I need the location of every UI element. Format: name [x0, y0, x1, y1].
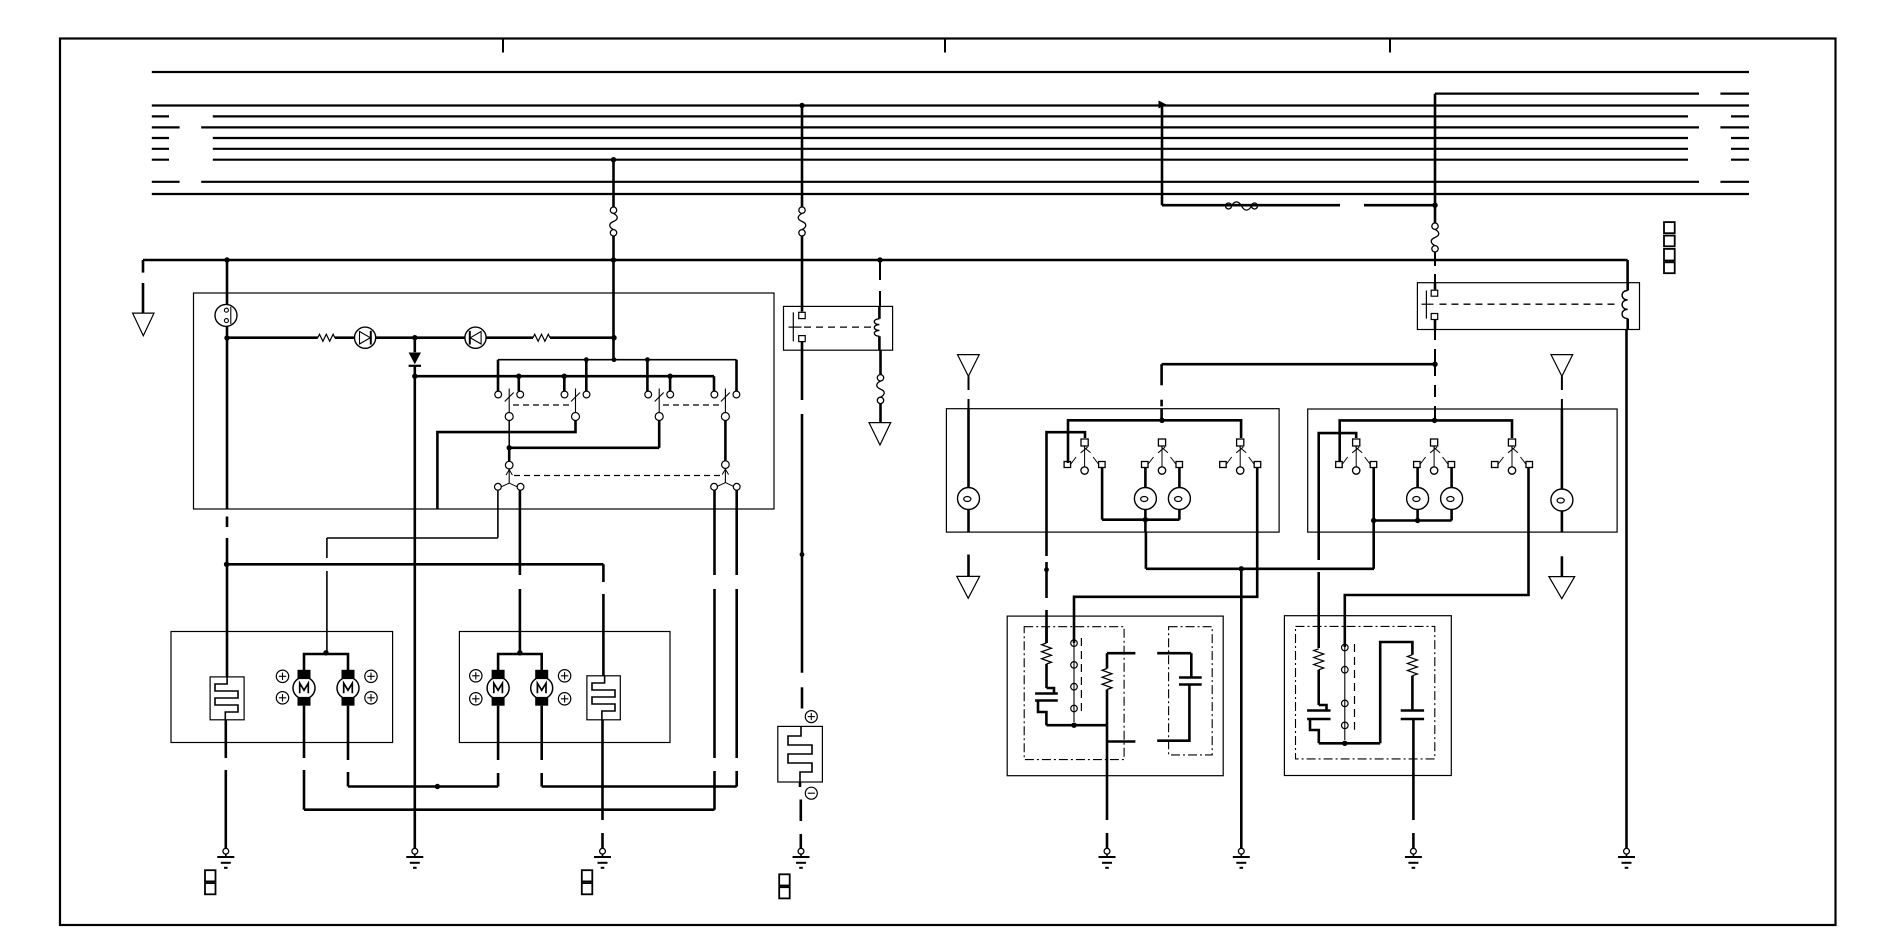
wire S9 contact L-path to condenser pins: [1074, 532, 1257, 643]
node junction x519/y376: [516, 374, 521, 379]
wire x1145 to y568.8: [1145, 532, 1148, 569]
ground G6: [1099, 848, 1116, 868]
node bus tap x613 junction: [611, 157, 616, 162]
wire horizontal y205 segment b: [1364, 204, 1435, 207]
wire bulb B2 down to arrow A6: [1561, 511, 1564, 577]
wire S5-left jog to motor box1: [327, 538, 498, 653]
wire y364 branch left: [1162, 363, 1435, 366]
wire S5 left contact drop: [497, 490, 499, 537]
dashed gang S5-S6: [514, 475, 721, 477]
label block 4 (unrendered text, 4 chars): [1664, 222, 1675, 273]
switch S9 (door lock sw): [1220, 439, 1261, 474]
node junction x227/y338: [224, 335, 229, 340]
relay K2 switch: [1422, 283, 1438, 330]
screw terminal 2a: [470, 670, 482, 682]
switch S8 (door lock sw): [1142, 439, 1183, 474]
wire crossover y447.8: [509, 421, 659, 448]
screw terminal 2b: [470, 693, 482, 705]
wire x414 to ground G2: [413, 376, 416, 848]
node junction x1145/y519.7: [1143, 517, 1148, 522]
node junction x1373/y520.5: [1371, 518, 1376, 523]
wire motor box1 feed split: [304, 653, 348, 670]
wire switch feed thick y376.2: [415, 375, 714, 378]
wire comb CN2 to ground G3: [601, 720, 604, 848]
ground arrow A6 (open triangle): [1549, 577, 1575, 599]
left control box: [194, 293, 775, 509]
ground arrow A4 (open triangle): [1551, 355, 1573, 377]
ground G3: [594, 848, 611, 868]
relay K1 box: [784, 306, 893, 350]
node junction x226/y564.3: [224, 562, 229, 567]
wire S6 left contact drop: [713, 490, 716, 810]
ground arrow A2 (open triangle): [869, 423, 891, 445]
wire x1435 relay to junction y364 (dashed): [1434, 330, 1436, 365]
connector pins P2: [1342, 644, 1355, 740]
label block 2 (unrendered text): [582, 870, 593, 894]
fuse F4: [1431, 205, 1439, 252]
fold tick 3: [1389, 39, 1391, 53]
wire y568.8 link: [1146, 567, 1374, 570]
door switch box 2: [1308, 409, 1617, 532]
connector E1 box: [778, 726, 823, 782]
wire x226 drop (dashed) from control box: [226, 338, 229, 564]
wire x1435 to door box2 (dashed): [1434, 364, 1436, 420]
wire S5 right contact drop (to motor box 2 feed): [519, 490, 522, 653]
wire D1 to junction x414: [376, 336, 415, 339]
wire motor box2 feed split: [498, 654, 542, 670]
node junction x509/y447.8: [507, 445, 512, 450]
wire x1162 down to y205: [1161, 105, 1164, 206]
connector circle C1: [215, 304, 237, 326]
node junction x1074/y725.2: [1071, 723, 1076, 728]
wire x614 fuse to switch feed: [612, 260, 615, 360]
wire fuse F4 below (dashed to relay K2): [1434, 252, 1436, 283]
wire arrow A3 to bulb B1: [968, 376, 970, 488]
screw terminal 1a: [276, 670, 288, 682]
wire drop x802 upper: [801, 106, 804, 208]
resistor R3: [1042, 627, 1052, 688]
wire x880 relay K1 coil feed (dashed): [879, 260, 881, 306]
wire bus line 1: [152, 71, 1749, 73]
ground G2: [406, 848, 423, 868]
node junction x1435/y205: [1432, 203, 1437, 208]
wire bulb B1 down to arrow A5: [967, 509, 970, 576]
fuse F3: [877, 350, 885, 422]
wire crossover y786.5 left: [348, 785, 498, 788]
ground arrow A3 (open triangle): [958, 355, 980, 377]
switch S7 (door lock sw): [1064, 439, 1105, 474]
switch S12 (door lock sw): [1492, 439, 1533, 474]
wire bus line 2: [152, 104, 1749, 106]
screw terminal 1c: [365, 670, 377, 682]
wire S10 right contact to lamp wire: [1374, 468, 1452, 521]
wire fuse F2 to relay K1: [801, 236, 804, 306]
switch S2 (window switch): [561, 389, 590, 421]
dashed gang S1-S2: [513, 404, 571, 406]
wire relay K2 coil to ground G8: [1625, 330, 1628, 849]
resistor R6: [1407, 655, 1417, 711]
fuse F5 (horizontal breaker): [1226, 202, 1258, 210]
wire E1 to ground G4: [799, 782, 802, 848]
wire x1162 down to door box1: [1160, 364, 1163, 420]
node junction x1345/y743.3: [1342, 741, 1347, 746]
wire branch top-right (y93.6): [1435, 92, 1749, 94]
wire arrow A4 to bulb B2: [1561, 376, 1563, 489]
wire left drop to ground arrow: [142, 260, 145, 313]
wire drop feed to S2 right contact: [585, 360, 588, 391]
node junction x1435/y364: [1432, 362, 1437, 367]
wire S7 right contact to lamp wire: [1102, 468, 1179, 520]
wire M4 bottom to crossover: [540, 706, 543, 787]
node junction x1241/y568.8: [1239, 566, 1244, 571]
relay K1 dashed link: [804, 326, 874, 328]
wire R4 top link to capacitor C3: [1107, 653, 1191, 677]
wire thick y564.3 to right corner: [227, 564, 604, 676]
wire junction to resistor R1: [227, 336, 318, 339]
condenser box 2: [1284, 616, 1451, 776]
wire bus line 9: [152, 193, 1749, 195]
wire right end drop to relay K2 coil: [1626, 260, 1629, 283]
bulb B1: [958, 488, 980, 510]
connector comb CN2: [587, 676, 620, 720]
wire R1 to LED D1: [335, 336, 355, 339]
wire S4 down to S6: [724, 421, 727, 461]
screw terminal 2d: [558, 693, 570, 705]
switch S4 (window switch): [711, 389, 740, 421]
node junction x1417/y520.5: [1415, 518, 1420, 523]
wire condenser box1 exit to ground G6: [1106, 725, 1109, 848]
wire x227 bus to connector circle: [226, 260, 229, 305]
ground G7: [1405, 848, 1422, 868]
fuse F2: [798, 207, 806, 236]
lamp L1: [1134, 468, 1156, 520]
switch S1 (window switch): [495, 389, 524, 421]
node junction x564/y376: [562, 374, 567, 379]
wire crossover y786.5 right: [542, 785, 737, 788]
motor M2: [337, 670, 359, 706]
node junction x1162/y420.3: [1159, 418, 1164, 423]
wire horizontal y205 segment a: [1162, 204, 1340, 207]
wire lamp junction down: [1144, 520, 1147, 532]
resistor R1: [318, 334, 335, 341]
fold tick 1: [502, 39, 504, 53]
wire feed y420.4 in box2: [1340, 420, 1512, 461]
node inline connector x1046/y569.7: [1044, 567, 1049, 572]
node bus tap x802 junction: [799, 103, 804, 108]
wire bus line 8: [152, 181, 1749, 183]
LED D1: [355, 327, 376, 348]
wire bus line 4: [152, 126, 1749, 128]
wire drop to S2 left contact: [563, 376, 566, 391]
wire S2 to left drop: [437, 421, 575, 510]
node junction x614/y359.7: [612, 357, 617, 362]
wire junction to LED D2: [415, 336, 465, 339]
wire condenser box2 S-link: [1380, 642, 1412, 743]
switch S6 (lockout): [711, 461, 740, 490]
wire bus line 7: [152, 159, 1749, 161]
capacitor C3: [1157, 678, 1202, 741]
LED D2: [465, 327, 486, 348]
lamp L4: [1441, 468, 1463, 521]
node junction x414/y376: [412, 374, 417, 379]
node junction x414/y338: [412, 335, 417, 340]
label block 1 (unrendered text): [205, 870, 216, 894]
wire switch feed thin y359.7: [498, 360, 737, 391]
wire connector circle to junction: [226, 326, 229, 338]
ground G5: [1233, 848, 1250, 868]
wire bus line 6: [152, 148, 1749, 150]
switch S10 (door lock sw): [1336, 439, 1377, 474]
capacitor C2: [1035, 688, 1058, 725]
resistor R4: [1102, 653, 1112, 725]
node junction x670/y376: [667, 374, 672, 379]
wire S1 to junction y447.8: [508, 421, 510, 448]
screw terminal 1b: [276, 692, 288, 704]
wire fuse F1 to bus wire: [612, 236, 615, 260]
condenser box2 inner dash-dot: [1296, 626, 1435, 759]
wire R2 to junction x614: [550, 336, 614, 339]
wire bus line 5: [152, 137, 1749, 139]
connector comb CN1: [210, 677, 244, 720]
node junction motor box2 feed: [517, 650, 522, 655]
wire condenser box2 bottom: [1319, 742, 1380, 745]
switch S11 (door lock sw): [1414, 439, 1455, 474]
plus terminal: [805, 711, 817, 723]
node junction x880/y260: [877, 257, 882, 262]
capacitor C5: [1401, 711, 1424, 776]
bulb B2: [1551, 489, 1573, 511]
relay K1 switch: [789, 306, 806, 350]
wire x1046 to condenser box1 (dashed): [1045, 532, 1048, 643]
node junction x614/y338: [611, 335, 616, 340]
wire comb CN1 to ground G1: [225, 720, 228, 848]
wire S10 top feed from below: [1319, 433, 1357, 532]
wire S7 top feed from below: [1047, 432, 1086, 532]
door switch box 1: [946, 409, 1279, 532]
wire drop to S1 right contact: [517, 376, 520, 391]
label block 3 (unrendered text): [779, 874, 790, 898]
lamp L3: [1407, 468, 1429, 521]
condenser box1 inner dash-dot right: [1169, 627, 1213, 755]
motor box 2: [459, 632, 670, 743]
wire x1435 from y93.6 corner down: [1434, 94, 1437, 206]
node bus tap x1162 (arrow junction): [1159, 101, 1167, 109]
wire drop to S3 right contact: [669, 376, 672, 391]
wire crossover y809.7: [304, 808, 715, 811]
condenser box 1: [1007, 616, 1223, 776]
resistor R5: [1314, 649, 1324, 705]
ground G8: [1618, 848, 1635, 868]
ground G1: [217, 848, 234, 868]
relay K2 coil: [1622, 283, 1628, 330]
ground G4: [793, 848, 810, 868]
capacitor C4: [1307, 705, 1330, 743]
wire M1 bottom to crossover: [303, 706, 306, 810]
diode D3: [409, 338, 421, 377]
wire M3 bottom to crossover: [497, 706, 500, 787]
wire x226 comb feed: [226, 564, 229, 677]
wire relay K1 switch to connector E1: [801, 350, 804, 708]
dashed gang S3-S4: [663, 404, 721, 406]
wire distribution y260: [143, 259, 1628, 262]
screw terminal 1d: [365, 692, 377, 704]
wire S1 junction down to S5: [508, 448, 511, 461]
wire drop x613 upper: [612, 160, 615, 207]
ground arrow A5 (open triangle): [957, 576, 980, 598]
wire feed y420.3 in box1: [1068, 420, 1241, 463]
node inline connector x802/y554: [800, 552, 805, 557]
resistor R2: [533, 334, 550, 341]
wire x1318 to condenser box2: [1317, 532, 1320, 648]
wire x1241 to ground G5: [1240, 569, 1243, 848]
node junction x613/y260: [611, 257, 616, 262]
node junction motor box1 feed: [323, 650, 328, 655]
wire condenser box2 exit to ground G7: [1412, 776, 1415, 849]
relay K2 box: [1417, 283, 1639, 330]
node junction x586/y359.7: [584, 357, 589, 362]
ground arrow A1 (open triangle): [133, 313, 154, 336]
wire condenser box1 bottom: [1046, 724, 1107, 727]
wire M2 bottom to crossover: [347, 706, 350, 787]
wire bus line 3: [152, 115, 1749, 117]
node junction x1435/y420.4: [1432, 418, 1437, 423]
relay K2 dashed link: [1440, 303, 1620, 305]
motor M1: [293, 670, 315, 706]
node junction x227/y260: [224, 257, 229, 262]
wire x1374 door box2 to y568.8: [1372, 521, 1375, 569]
wire S9 right contact down: [1256, 468, 1259, 533]
node junction x437/y786.5: [435, 784, 440, 789]
switch S5 (lockout): [495, 461, 524, 490]
wire drop to S4 left contact: [713, 376, 716, 391]
connector pins P1: [1071, 638, 1082, 722]
wire C3 return stub: [1107, 740, 1135, 743]
switch S3 (window switch): [645, 389, 674, 421]
relay K1 coil: [874, 306, 879, 350]
condenser box1 inner dash-dot left: [1024, 627, 1124, 760]
minus terminal: [805, 787, 817, 799]
motor box 1: [171, 632, 393, 743]
lamp L2: [1168, 468, 1190, 520]
fold tick 2: [944, 39, 946, 53]
wire D2 to resistor R2: [486, 336, 533, 339]
wire drop feed to S3 left contact: [646, 360, 649, 391]
wire S6 right contact drop: [735, 490, 738, 786]
node junction x647/y359.7: [645, 357, 650, 362]
connector E1 comb: [788, 726, 812, 782]
screw terminal 2c: [558, 670, 570, 682]
motor M4: [531, 670, 553, 706]
fuse F1: [610, 207, 618, 236]
motor M3: [487, 670, 509, 706]
wire S12 right contact L-path to condenser pins: [1345, 468, 1529, 648]
